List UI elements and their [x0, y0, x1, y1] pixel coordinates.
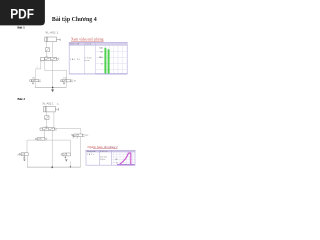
port arrows above valve V1: [45, 56, 48, 57]
column dividers T1: [83, 42, 85, 74]
5/2 valve V1: [40, 57, 59, 60]
wire supply line center: [52, 60, 54, 87]
svg-text:Bài tập Chương 4: Bài tập Chương 4: [52, 16, 97, 23]
svg-text:Bài 1: Bài 1: [17, 26, 25, 30]
supply unit P2 (left): [19, 153, 28, 161]
svg-text:1A1 25: 1A1 25: [70, 58, 79, 61]
wire S2 to bottom bus: [65, 82, 67, 87]
3/2 roller valve S3: [71, 134, 85, 139]
grid pale horizontal lines T1: [96, 51, 128, 69]
3/2 valve S1: [29, 79, 40, 84]
wire long line to supplies: [27, 140, 70, 153]
svg-text:Value: Value: [100, 151, 107, 153]
bottom border T1: [69, 73, 127, 75]
wire valve V2 port A down to left valve S4: [43, 130, 45, 137]
svg-text:100: 100: [99, 47, 102, 49]
caption 2: Nguồn: Xem + link: [88, 145, 118, 149]
port arrows above valve V2: [45, 126, 48, 127]
caption 1: Xem video mô phỏng (red link): [71, 38, 104, 42]
flow control valve F1: [46, 48, 50, 52]
wire S3 bottom port down to bus: [80, 137, 82, 168]
svg-text:50: 50: [115, 159, 117, 161]
header row T1: [69, 42, 127, 45]
svg-text:1A1: 1A1: [99, 56, 102, 59]
svg-text:2S2: 2S2: [85, 135, 88, 137]
3/2 valve S2: [60, 79, 73, 84]
magenta curve: [120, 153, 131, 164]
svg-text:Xem video mô phỏng: Xem video mô phỏng: [71, 38, 104, 42]
flow control valve F2: [45, 116, 49, 120]
svg-text:Diagram: Diagram: [87, 151, 96, 153]
green spike 2: [108, 49, 110, 74]
column dividers T2: [99, 150, 101, 165]
wire pilot horizontal to right limit valve: [57, 129, 81, 135]
PDF badge: [0, 0, 45, 25]
exhaust ticks valve V1: [40, 60, 42, 61]
table T1 frame: [69, 42, 127, 74]
svg-text:mô phỏng 2: mô phỏng 2: [104, 145, 118, 149]
node junction comp P3: [70, 166, 71, 167]
svg-text:XL-A01 1: XL-A01 1: [45, 32, 59, 35]
svg-text:mm: mm: [85, 60, 90, 62]
svg-text:0: 0: [101, 63, 102, 65]
3/2 valve S4 (left): [35, 138, 47, 141]
svg-text:Nguồn: Xem: Nguồn: Xem: [88, 145, 103, 149]
svg-text:Bài 2: Bài 2: [17, 97, 25, 101]
wire cyl left port down: [46, 42, 48, 48]
wire cyl right port down to valve V1: [51, 42, 53, 58]
wire P2 down to bus: [26, 156, 28, 168]
wire P3 down to bus: [69, 162, 71, 167]
grid pale horizontal lines T2: [112, 154, 136, 162]
wire F2 down to valve V2: [45, 119, 47, 127]
compressor source P1: [51, 87, 53, 91]
table T2 frame: [86, 150, 135, 165]
wire valve V1 port A to left limit valve: [36, 60, 41, 79]
wire right corner down to comp P3: [69, 140, 71, 153]
supply unit P3 (right): [61, 153, 71, 162]
bottom axis bright segment: [117, 164, 135, 166]
svg-text:2A1 x: 2A1 x: [87, 153, 94, 156]
node junction supply: [51, 166, 53, 168]
wire cyl2 left port down: [45, 112, 47, 116]
wire valve V1 port B to right limit valve: [45, 60, 67, 79]
wire bottom bus B3: [27, 166, 81, 168]
cylinder C1: [45, 37, 60, 42]
grid pale vertical lines T1: [105, 45, 122, 73]
svg-text:0V1: 0V1: [17, 154, 20, 156]
svg-text:50: 50: [100, 51, 102, 53]
grid pale vertical lines T2: [114, 152, 133, 164]
node supply junction: [52, 87, 54, 89]
wire cyl2 rod port down to valve V2: [53, 112, 55, 128]
header row T2: [86, 150, 135, 152]
svg-text:t(s): t(s): [85, 43, 91, 46]
cylinder C2: [44, 106, 59, 112]
green spike 1: [104, 48, 106, 74]
svg-text:2: 2: [37, 67, 38, 69]
wire S1 to bottom bus: [34, 82, 36, 88]
svg-text:PDF: PDF: [10, 6, 34, 22]
wire supply line center: [51, 130, 53, 169]
5/2 valve V2: [40, 128, 57, 131]
svg-text:100 s: 100 s: [100, 159, 105, 161]
svg-text:Biểu đồ: Biểu đồ: [70, 43, 79, 46]
wire bottom bus B2: [35, 86, 67, 88]
wire FCV down to valve V1: [46, 52, 48, 58]
svg-text:XL-A02 1: XL-A02 1: [42, 103, 54, 106]
